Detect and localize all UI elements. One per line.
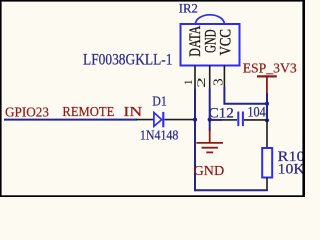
wire REMOTE_IN horizontal xyxy=(4,119,137,121)
sheet border left xyxy=(0,0,2,197)
junction node C12/R10 xyxy=(265,118,269,122)
sheet edge white strip right xyxy=(301,0,303,197)
svg-text:1: 1 xyxy=(181,79,195,85)
svg-text:DATA: DATA xyxy=(187,25,204,57)
junction node pin1/REMOTE_IN xyxy=(193,118,197,122)
diode D1 xyxy=(136,112,193,127)
svg-text:D1: D1 xyxy=(152,93,167,108)
sheet border top xyxy=(0,0,305,2)
sheet border right xyxy=(302,0,305,197)
svg-text:IR2: IR2 xyxy=(179,1,198,16)
pin 1 (DATA) xyxy=(194,66,196,89)
sheet edge white strip bottom xyxy=(0,194,305,195)
svg-text:ESP_3V3: ESP_3V3 xyxy=(243,61,297,76)
wire pin2 down xyxy=(209,89,211,132)
power symbol ESP_3V3 xyxy=(257,76,277,94)
component IR2 body xyxy=(181,15,240,66)
pin 3 (VCC) xyxy=(223,66,225,88)
ground symbol GND xyxy=(196,130,223,152)
svg-text:C12: C12 xyxy=(209,106,234,122)
pin 2 (GND) xyxy=(209,66,211,89)
resistor R10 xyxy=(262,120,272,190)
svg-text:GND: GND xyxy=(194,164,225,179)
svg-text:VCC: VCC xyxy=(218,29,235,55)
svg-text:REMOTE: REMOTE xyxy=(62,105,114,120)
junction node pin2/C12 xyxy=(208,118,212,122)
sheet border bottom xyxy=(0,195,305,197)
svg-text:3: 3 xyxy=(210,78,225,86)
svg-text:104: 104 xyxy=(247,104,265,120)
svg-text:LF0038GKLL-1: LF0038GKLL-1 xyxy=(83,52,173,69)
wire pin1 down xyxy=(194,89,196,192)
svg-text:1N4148: 1N4148 xyxy=(140,128,179,143)
svg-text:2: 2 xyxy=(196,77,208,88)
wire bottom return xyxy=(194,189,268,191)
svg-text:GPIO23: GPIO23 xyxy=(5,106,49,121)
junction node VCC/ESP_3V3 xyxy=(265,102,269,106)
wire ESP_3V3 down xyxy=(266,93,268,120)
capacitor C12 xyxy=(211,112,266,127)
svg-text:IN: IN xyxy=(123,105,142,120)
wire pin3 to ESP_3V3 line xyxy=(224,87,267,104)
svg-text:10K: 10K xyxy=(278,161,305,177)
